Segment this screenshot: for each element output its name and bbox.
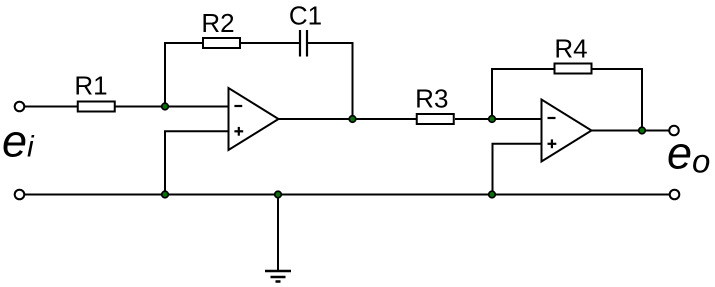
wire <box>279 118 417 120</box>
capacitor C1 <box>300 30 307 57</box>
op-amp U1 <box>229 88 279 150</box>
wire <box>164 130 229 132</box>
ground <box>265 271 291 282</box>
wire <box>491 68 554 70</box>
op-amp U2 <box>542 100 592 162</box>
wire <box>593 68 644 70</box>
terminal input top <box>15 102 25 112</box>
wire <box>277 195 279 272</box>
wire bottom rail <box>25 194 670 196</box>
wire <box>491 69 493 119</box>
wire <box>592 130 670 132</box>
wire <box>352 43 354 119</box>
wire <box>164 43 166 107</box>
node C junction <box>489 116 496 123</box>
wire <box>308 42 354 44</box>
node B junction <box>349 116 356 123</box>
terminal output bottom <box>670 190 680 200</box>
node E junction <box>162 191 169 198</box>
wire <box>455 118 542 120</box>
wire <box>164 131 166 194</box>
svg-text:R4: R4 <box>554 33 587 63</box>
node D junction <box>639 127 646 134</box>
resistor R4 <box>555 64 592 74</box>
svg-text:R3: R3 <box>415 83 448 113</box>
node F junction <box>489 191 496 198</box>
resistor R3 <box>417 114 454 124</box>
wire <box>116 106 229 108</box>
svg-text:R2: R2 <box>201 8 234 38</box>
wire <box>25 106 78 108</box>
wire <box>492 143 542 145</box>
resistor R2 <box>203 38 240 48</box>
resistor R1 <box>78 102 115 112</box>
node G junction <box>275 191 282 198</box>
terminal input bottom <box>15 190 25 200</box>
node A junction <box>162 103 169 110</box>
wire <box>241 42 300 44</box>
terminal output top <box>669 126 679 136</box>
wire <box>641 69 643 131</box>
svg-text:C1: C1 <box>289 0 322 30</box>
wire <box>164 42 202 44</box>
wire <box>492 144 494 195</box>
svg-text:R1: R1 <box>74 70 107 100</box>
